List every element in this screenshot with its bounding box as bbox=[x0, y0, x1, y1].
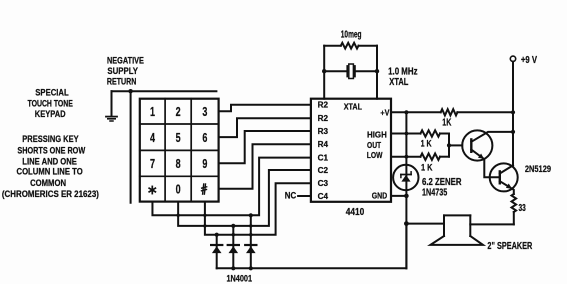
svg-text:COLUMN LINE TO: COLUMN LINE TO bbox=[17, 167, 84, 178]
svg-text:7: 7 bbox=[150, 157, 155, 171]
svg-text:10meg: 10meg bbox=[341, 30, 362, 41]
svg-text:+9 V: +9 V bbox=[521, 55, 537, 66]
svg-text:R2: R2 bbox=[318, 101, 329, 110]
svg-text:1K: 1K bbox=[442, 118, 452, 129]
svg-text:XTAL: XTAL bbox=[389, 77, 408, 88]
svg-text:LOW: LOW bbox=[367, 150, 383, 160]
svg-text:C3: C3 bbox=[318, 179, 329, 188]
svg-text:TOUCH TONE: TOUCH TONE bbox=[28, 98, 74, 109]
svg-text:2N5129: 2N5129 bbox=[525, 164, 551, 175]
svg-text:C1: C1 bbox=[318, 154, 329, 163]
svg-text:+V: +V bbox=[380, 107, 389, 117]
svg-text:6.2 ZENER: 6.2 ZENER bbox=[422, 177, 462, 188]
svg-text:1N4001: 1N4001 bbox=[227, 273, 253, 283]
svg-text:4410: 4410 bbox=[346, 207, 365, 218]
svg-text:1N4735: 1N4735 bbox=[422, 188, 448, 199]
svg-text:SPECIAL: SPECIAL bbox=[35, 88, 69, 99]
svg-text:9: 9 bbox=[202, 157, 207, 171]
svg-text:NEGATIVE: NEGATIVE bbox=[107, 55, 144, 66]
svg-text:COMMON: COMMON bbox=[30, 178, 66, 189]
svg-text:8: 8 bbox=[176, 157, 181, 171]
svg-text:5: 5 bbox=[176, 131, 181, 145]
svg-text:C4: C4 bbox=[318, 192, 329, 201]
svg-text:33: 33 bbox=[519, 203, 527, 214]
svg-text:6: 6 bbox=[202, 131, 207, 145]
svg-text:SHORTS ONE ROW: SHORTS ONE ROW bbox=[17, 145, 86, 156]
svg-text:C2: C2 bbox=[318, 166, 329, 175]
svg-text:0: 0 bbox=[176, 183, 181, 197]
svg-text:1 K: 1 K bbox=[421, 139, 432, 150]
svg-text:R2: R2 bbox=[318, 114, 329, 123]
svg-text:1: 1 bbox=[150, 105, 155, 119]
svg-text:R4: R4 bbox=[318, 140, 329, 149]
svg-text:R3: R3 bbox=[318, 127, 329, 136]
svg-text:OUT: OUT bbox=[367, 140, 382, 150]
svg-text:1.0 MHz: 1.0 MHz bbox=[388, 65, 418, 77]
svg-text:2: 2 bbox=[176, 105, 181, 119]
svg-text:XTAL: XTAL bbox=[344, 103, 362, 112]
svg-text:NC: NC bbox=[285, 190, 297, 200]
svg-text:KEYPAD: KEYPAD bbox=[35, 109, 66, 120]
svg-text:(CHROMERICS ER 21623): (CHROMERICS ER 21623) bbox=[2, 189, 99, 200]
svg-text:HIGH: HIGH bbox=[367, 130, 387, 140]
svg-text:RETURN: RETURN bbox=[107, 76, 137, 87]
svg-text:1 K: 1 K bbox=[421, 163, 433, 174]
svg-text:GND: GND bbox=[372, 190, 388, 200]
svg-text:3: 3 bbox=[202, 105, 207, 119]
svg-text:2" SPEAKER: 2" SPEAKER bbox=[487, 240, 532, 252]
svg-text:PRESSING KEY: PRESSING KEY bbox=[22, 134, 79, 145]
svg-text:4: 4 bbox=[150, 131, 155, 145]
